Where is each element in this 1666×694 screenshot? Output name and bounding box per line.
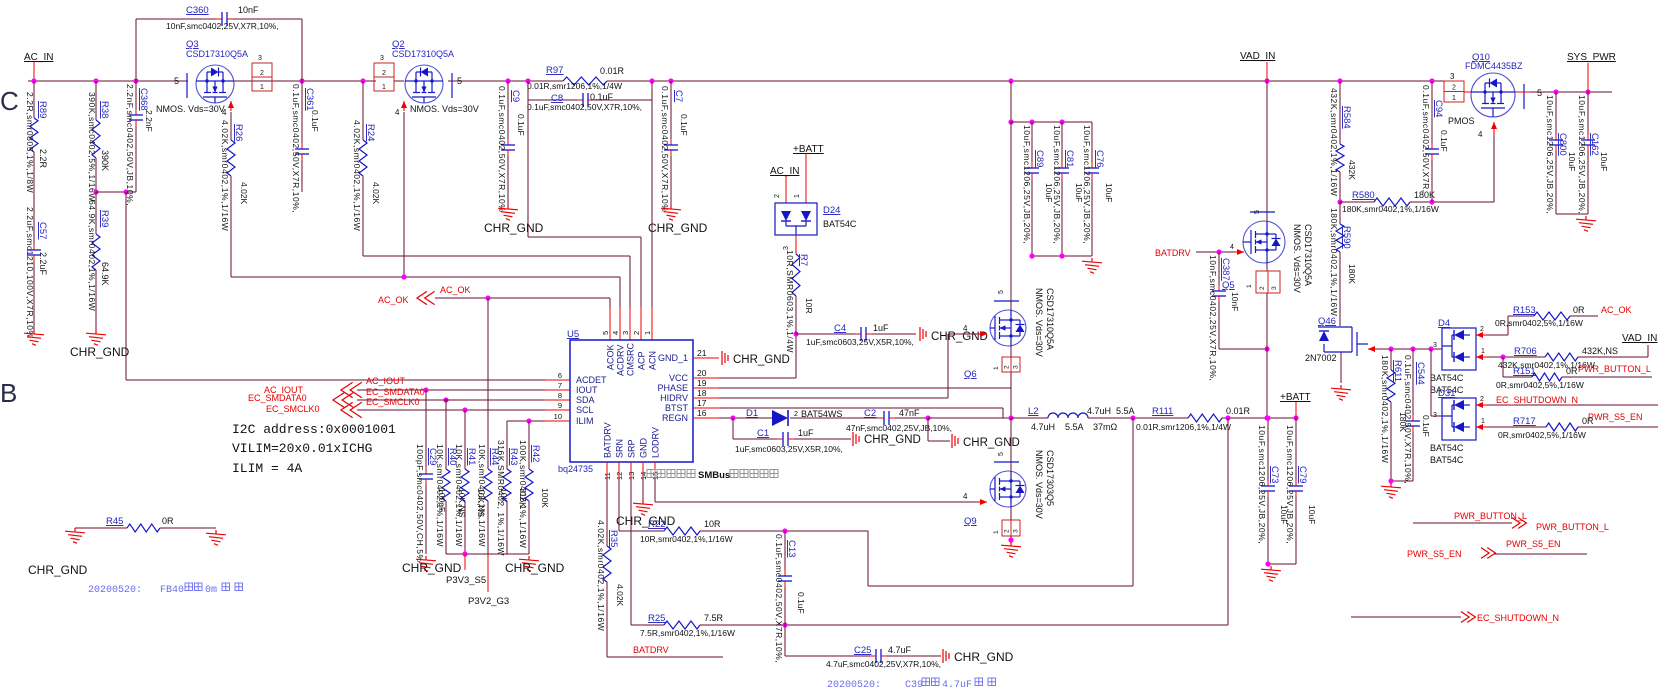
svg-text:C9: C9 xyxy=(510,90,521,102)
ground Q46 source xyxy=(1340,352,1342,383)
capacitor C4 xyxy=(796,333,855,335)
svg-text:21: 21 xyxy=(697,348,707,358)
svg-text:B: B xyxy=(0,378,17,408)
ground under C57 xyxy=(24,330,44,345)
svg-text:10uF: 10uF xyxy=(1599,152,1609,171)
svg-text:CHR_GND: CHR_GND xyxy=(484,221,544,235)
capacitor C800 xyxy=(1555,92,1557,134)
wire AC rail segment 4 xyxy=(448,80,563,82)
svg-text:1uF: 1uF xyxy=(873,323,889,333)
svg-text:2.2nF: 2.2nF xyxy=(144,110,154,132)
svg-text:R39: R39 xyxy=(99,210,110,227)
svg-text:R24: R24 xyxy=(365,124,376,141)
svg-text:SRN: SRN xyxy=(615,439,625,458)
op-amp U5 bq24735 charge controller IC xyxy=(570,340,693,462)
svg-text:SRP: SRP xyxy=(627,439,637,458)
svg-text:9: 9 xyxy=(558,401,562,410)
wire Q46 drain to D4 xyxy=(1368,348,1376,350)
svg-text:1uF: 1uF xyxy=(798,428,814,438)
svg-text:CHR_GND: CHR_GND xyxy=(954,650,1014,664)
svg-text:BAT54C: BAT54C xyxy=(1430,443,1464,453)
svg-text:R35: R35 xyxy=(608,530,619,547)
svg-text:Q6: Q6 xyxy=(964,369,977,380)
svg-text:D4: D4 xyxy=(1438,318,1450,329)
svg-text:GND: GND xyxy=(639,438,649,459)
svg-text:20200520: C39: 20200520: C39 xyxy=(827,680,923,691)
capacitor C387 xyxy=(1218,252,1220,285)
svg-text:390K: 390K xyxy=(100,150,110,171)
svg-text:AC_OK: AC_OK xyxy=(378,295,409,305)
svg-text:C57: C57 xyxy=(37,222,48,239)
svg-text:C544: C544 xyxy=(1415,362,1426,385)
svg-text:NMOS. Vds=30V: NMOS. Vds=30V xyxy=(1034,450,1044,519)
svg-text:P3V3_S5: P3V3_S5 xyxy=(446,575,486,586)
svg-text:10R: 10R xyxy=(804,298,814,314)
svg-text:0R,smr0402,5%,1/16W: 0R,smr0402,5%,1/16W xyxy=(1496,380,1584,390)
resistor R35 xyxy=(606,462,608,478)
pin box Q2 xyxy=(374,63,394,91)
svg-text:3: 3 xyxy=(1013,365,1020,369)
svg-text:ACN: ACN xyxy=(648,351,658,370)
gate pin 4 of Q3 xyxy=(230,101,232,111)
svg-text:7.5R: 7.5R xyxy=(704,613,724,623)
svg-text:10uF: 10uF xyxy=(1104,183,1114,202)
transistor Q46 2N7002 xyxy=(1339,322,1341,326)
svg-text:PWR_S5_EN: PWR_S5_EN xyxy=(1407,549,1462,559)
resistor R89 xyxy=(33,81,35,118)
wire C387 bottom xyxy=(1219,348,1267,350)
svg-text:16: 16 xyxy=(697,408,707,418)
svg-text:1: 1 xyxy=(993,530,1000,534)
svg-text:0.1uF: 0.1uF xyxy=(679,114,689,136)
svg-text:1: 1 xyxy=(1452,95,1456,102)
transistor Q9 xyxy=(990,462,1026,507)
svg-text:BAT54C: BAT54C xyxy=(1430,373,1464,383)
svg-text:BAT54C: BAT54C xyxy=(1430,455,1464,465)
svg-text:R25: R25 xyxy=(648,613,665,624)
svg-text:4.02K,smr0402,1%,1/16W: 4.02K,smr0402,1%,1/16W xyxy=(352,120,362,231)
svg-text:0.1uF: 0.1uF xyxy=(310,110,320,132)
svg-text:2: 2 xyxy=(1004,529,1011,533)
svg-text:17: 17 xyxy=(697,398,707,408)
wire R611 C544 bottom xyxy=(1391,480,1413,482)
svg-text:0.1uF,smc0402,50V,X7R,: 0.1uF,smc0402,50V,X7R, xyxy=(1421,85,1431,193)
svg-text:BTST: BTST xyxy=(665,403,689,413)
resistor R153 xyxy=(1488,334,1508,336)
C2 ground branch xyxy=(927,418,929,441)
capacitor C2 xyxy=(878,417,883,419)
diode D1 BAT54WS xyxy=(772,410,788,426)
ground cap bank xyxy=(1082,258,1102,273)
svg-text:4.02K,smr0402,1%,1/16W: 4.02K,smr0402,1%,1/16W xyxy=(596,520,606,631)
svg-text:2: 2 xyxy=(774,194,781,198)
svg-text:4: 4 xyxy=(963,324,968,333)
svg-text:0.01R: 0.01R xyxy=(600,66,625,76)
svg-text:C13: C13 xyxy=(786,540,797,557)
svg-text:CHR_GND: CHR_GND xyxy=(931,331,988,343)
svg-text:7: 7 xyxy=(558,381,562,390)
svg-text:0.1uF: 0.1uF xyxy=(796,592,806,614)
svg-text:0.1uF,smc0402,50V,X7R,10%: 0.1uF,smc0402,50V,X7R,10% xyxy=(497,86,507,212)
svg-text:432K: 432K xyxy=(1347,160,1357,180)
svg-text:NMOS. Vds=30V: NMOS. Vds=30V xyxy=(410,104,479,114)
svg-text:0.1uF,smc0402,50V,X7R,10%: 0.1uF,smc0402,50V,X7R,10% xyxy=(660,86,670,212)
capacitor C94 xyxy=(1431,81,1433,143)
diode D24 BAT54C xyxy=(775,203,817,235)
svg-text:180K,smr0402,1%,1/16W: 180K,smr0402,1%,1/16W xyxy=(1380,355,1390,463)
resistor R611 xyxy=(1390,349,1392,370)
svg-text:+BATT: +BATT xyxy=(1280,392,1311,403)
svg-text:1uF,smc0603,25V,X5R,10%,: 1uF,smc0603,25V,X5R,10%, xyxy=(735,444,843,454)
capacitor C13 xyxy=(784,531,786,570)
svg-text:1: 1 xyxy=(1481,418,1485,425)
svg-text:EC_SMCLK0: EC_SMCLK0 xyxy=(366,397,420,407)
svg-text:C76: C76 xyxy=(1094,150,1105,167)
svg-text:4: 4 xyxy=(611,331,620,335)
svg-text:Q46: Q46 xyxy=(1318,316,1336,327)
svg-text:180K,smr0402,1%,1/16W: 180K,smr0402,1%,1/16W xyxy=(1329,208,1339,316)
wire cap bank top rail xyxy=(1011,121,1092,123)
svg-text:EC_SMCLK0: EC_SMCLK0 xyxy=(266,404,320,414)
svg-text:EC_SMDATA0: EC_SMDATA0 xyxy=(248,393,307,403)
svg-text:C2: C2 xyxy=(864,408,876,419)
svg-text:R584: R584 xyxy=(1341,106,1352,129)
svg-text:0R: 0R xyxy=(162,516,174,526)
wire Q10 to SYS_PWR xyxy=(1515,91,1530,93)
svg-text:4: 4 xyxy=(222,108,227,117)
wire ACP sense xyxy=(527,100,529,237)
svg-text:PWR_S5_EN: PWR_S5_EN xyxy=(1506,539,1561,549)
svg-text:2.2R,smr0805,1%,1/8W: 2.2R,smr0805,1%,1/8W xyxy=(25,92,35,193)
svg-text:0.01R: 0.01R xyxy=(1226,406,1251,416)
net EC_SHUTDOWN_N port xyxy=(1351,616,1461,618)
svg-text:7.5R,smr0402,1%,1/16W: 7.5R,smr0402,1%,1/16W xyxy=(640,628,735,638)
ground under R39 xyxy=(86,330,106,345)
wire ACDRV run xyxy=(231,276,620,278)
svg-text:LODRV: LODRV xyxy=(651,427,661,458)
svg-text:EC_SHUTDOWN_N: EC_SHUTDOWN_N xyxy=(1477,613,1559,623)
svg-text:64.9K: 64.9K xyxy=(100,262,110,286)
svg-text:10uF,smc1206,25V,JB,20%,: 10uF,smc1206,25V,JB,20%, xyxy=(1082,125,1092,244)
wire ACN sense xyxy=(651,100,653,307)
resistor R26 xyxy=(230,112,232,140)
svg-text:0.1uF: 0.1uF xyxy=(1421,415,1431,437)
svg-text:D24: D24 xyxy=(823,205,840,216)
svg-text:10uF,smc1206,25V,JB,20%,: 10uF,smc1206,25V,JB,20%, xyxy=(1545,95,1555,214)
svg-text:10uF,smc1206,25V,JB,20%,: 10uF,smc1206,25V,JB,20%, xyxy=(1257,425,1267,544)
U5 left pins xyxy=(545,379,570,381)
wire VAD_IN to Q5 drain xyxy=(1266,81,1268,222)
D31 pin1 R717 xyxy=(1476,426,1488,428)
svg-text:0.1uF,smc0402,50V,X7R,10%,: 0.1uF,smc0402,50V,X7R,10%, xyxy=(1403,355,1413,484)
svg-text:10nF: 10nF xyxy=(238,5,259,15)
diode D31 BAT54C xyxy=(1442,398,1476,440)
pin box Q9 xyxy=(1010,507,1012,520)
wire network bottom rail xyxy=(446,553,529,555)
svg-text:4: 4 xyxy=(1230,244,1234,251)
svg-text:0R: 0R xyxy=(1566,366,1578,376)
svg-text:R611: R611 xyxy=(1392,360,1403,382)
ground under C29 xyxy=(416,556,436,571)
svg-text:0.01R,smr1206,1%,1/4W: 0.01R,smr1206,1%,1/4W xyxy=(527,81,622,91)
wire Q2 gate to ACDRV run xyxy=(403,112,405,277)
svg-text:19: 19 xyxy=(697,378,707,388)
capacitor C368 xyxy=(135,81,137,109)
svg-text:CHR_GND: CHR_GND xyxy=(28,563,88,577)
svg-text:NMOS. Vds=30V: NMOS. Vds=30V xyxy=(1292,224,1302,293)
wire AC rail segment 5 xyxy=(607,80,1444,82)
svg-text:C7: C7 xyxy=(673,90,684,102)
wire SRN sense route xyxy=(867,531,869,586)
D4 pin1 xyxy=(1476,356,1488,358)
svg-text:C800: C800 xyxy=(1557,133,1568,156)
resistor R22 xyxy=(618,462,620,478)
svg-text:0.1uF,smc0402,50V,X7R,10%,: 0.1uF,smc0402,50V,X7R,10%, xyxy=(527,102,642,112)
svg-text:1: 1 xyxy=(382,84,386,91)
wire D31 pin3 to C544 node xyxy=(1430,349,1432,416)
svg-text:0R,smr0402,5%,1/16W: 0R,smr0402,5%,1/16W xyxy=(1495,318,1583,328)
svg-text:PMOS: PMOS xyxy=(1448,116,1475,126)
wire phase node to Q9 xyxy=(1010,418,1012,472)
resistor R25 xyxy=(630,462,632,478)
svg-text:2: 2 xyxy=(1452,85,1456,92)
svg-text:4: 4 xyxy=(963,492,968,501)
ground R611 xyxy=(1381,483,1401,498)
svg-text:10uF,smc1206,25V,JB,20%,: 10uF,smc1206,25V,JB,20%, xyxy=(1052,125,1062,244)
capacitor C57 xyxy=(33,244,35,247)
svg-text:CHR_GND: CHR_GND xyxy=(402,561,462,575)
svg-text:R42: R42 xyxy=(530,445,541,462)
svg-text:5: 5 xyxy=(457,76,462,86)
svg-text:5: 5 xyxy=(998,452,1005,456)
svg-text:CHR_GND: CHR_GND xyxy=(70,345,130,359)
svg-text:NMOS. Vds=30V: NMOS. Vds=30V xyxy=(1034,288,1044,357)
resistor R111 xyxy=(1188,414,1222,422)
svg-text:3: 3 xyxy=(1433,342,1437,349)
wire REGN chain xyxy=(719,417,772,419)
wire CMSRC run xyxy=(363,255,630,257)
svg-text:4.7uF: 4.7uF xyxy=(888,645,912,655)
svg-text:4.02K: 4.02K xyxy=(239,182,249,205)
svg-text:CHR_GND: CHR_GND xyxy=(733,354,790,366)
capacitor C9 xyxy=(507,81,509,139)
svg-text:IOUT: IOUT xyxy=(576,385,598,395)
wire AC rail segment 3 xyxy=(394,80,404,82)
svg-text:R97: R97 xyxy=(546,65,563,76)
svg-text:100K,smr0402,1%,1/16W: 100K,smr0402,1%,1/16W xyxy=(518,440,528,548)
svg-text:HIDRV: HIDRV xyxy=(660,393,688,403)
resistor R38 xyxy=(95,81,97,120)
wire R580 to Q10 gate xyxy=(1493,136,1495,202)
svg-text:R22: R22 xyxy=(648,519,665,530)
resistor R45 xyxy=(75,527,127,529)
svg-text:R717: R717 xyxy=(1513,416,1536,427)
resistor R151 xyxy=(1502,357,1504,377)
svg-text:3: 3 xyxy=(621,331,630,335)
svg-text:10nF: 10nF xyxy=(1230,292,1240,311)
resistor R41 xyxy=(464,410,466,469)
svg-text:ILIM = 4A: ILIM = 4A xyxy=(232,461,302,476)
svg-text:C89: C89 xyxy=(1034,150,1045,167)
svg-text:0m: 0m xyxy=(205,585,217,596)
svg-text:4.7uF,smc0402,25V,X7R,10%,: 4.7uF,smc0402,25V,X7R,10%, xyxy=(826,659,941,669)
svg-text:R590: R590 xyxy=(1341,226,1352,249)
capacitor C25 xyxy=(784,625,786,656)
svg-text:R41: R41 xyxy=(466,448,477,465)
svg-text:ACOK: ACOK xyxy=(606,344,616,370)
node VAD_IN right xyxy=(1578,356,1648,358)
svg-text:10: 10 xyxy=(554,412,562,421)
svg-text:4: 4 xyxy=(1478,130,1483,139)
svg-text:2.2uF: 2.2uF xyxy=(38,252,48,276)
svg-text:R43: R43 xyxy=(508,448,519,465)
svg-text:CHR_GND: CHR_GND xyxy=(616,514,676,528)
svg-text:FDMC4435BZ: FDMC4435BZ xyxy=(1465,61,1523,71)
svg-text:1uF,smc0603,25V,X5R,10%,: 1uF,smc0603,25V,X5R,10%, xyxy=(806,337,914,347)
svg-text:10uF,smc1206,25V,JB,20%,: 10uF,smc1206,25V,JB,20%, xyxy=(1577,95,1587,214)
wire BTST run xyxy=(719,407,1003,409)
transistor Q6 xyxy=(990,301,1026,346)
gate pin 4 of Q2 xyxy=(403,101,405,111)
svg-text:R89: R89 xyxy=(37,101,48,118)
svg-text:VAD_IN: VAD_IN xyxy=(1622,333,1657,344)
svg-text:C387: C387 xyxy=(1220,258,1231,281)
wire PHASE run xyxy=(719,387,1011,389)
svg-text:R153: R153 xyxy=(1513,305,1536,316)
svg-text:0.1uF: 0.1uF xyxy=(516,114,526,136)
resistor R42 xyxy=(528,421,530,469)
svg-text:100pF,smc0402,50V,CH,5%: 100pF,smc0402,50V,CH,5% xyxy=(415,444,425,563)
svg-text:SCL: SCL xyxy=(576,405,594,415)
capacitor C89 xyxy=(1031,122,1033,162)
svg-text:2N7002: 2N7002 xyxy=(1305,353,1337,363)
svg-text:AC_IOUT: AC_IOUT xyxy=(366,376,406,386)
capacitor C79 xyxy=(1295,418,1297,480)
svg-text:18: 18 xyxy=(697,388,707,398)
svg-text:180K,smr0402,1%,1/16W: 180K,smr0402,1%,1/16W xyxy=(1342,204,1439,214)
svg-text:1: 1 xyxy=(993,366,1000,370)
svg-text:Q5: Q5 xyxy=(1222,280,1235,291)
capacitor C76 xyxy=(1091,122,1093,162)
svg-text:2: 2 xyxy=(1004,365,1011,369)
svg-text:ILIM: ILIM xyxy=(576,416,594,426)
svg-text:20: 20 xyxy=(697,368,707,378)
svg-text:C4: C4 xyxy=(834,323,846,334)
svg-text:REGN: REGN xyxy=(662,413,688,423)
svg-text:R45: R45 xyxy=(106,516,123,527)
capacitor C29 xyxy=(425,390,427,468)
svg-text:ACDRV: ACDRV xyxy=(616,345,626,376)
svg-text:432K,NS: 432K,NS xyxy=(1582,346,1618,356)
svg-text:0R: 0R xyxy=(1573,305,1585,315)
svg-text:C73: C73 xyxy=(1269,466,1280,483)
svg-text:AC_IN: AC_IN xyxy=(770,166,799,177)
svg-text:0.1uF,smc0402,50V,X7R,10%,: 0.1uF,smc0402,50V,X7R,10%, xyxy=(291,84,301,213)
svg-text:47nF,smc0402,25V,JB,10%,: 47nF,smc0402,25V,JB,10%, xyxy=(846,423,952,433)
svg-text:CSD17310Q5A: CSD17310Q5A xyxy=(186,49,248,59)
svg-text:AC_OK: AC_OK xyxy=(1601,305,1632,315)
wire rail to Q6 drain xyxy=(1010,122,1012,311)
inductor L2 xyxy=(1011,417,1048,419)
svg-text:NMOS. Vds=30V: NMOS. Vds=30V xyxy=(156,104,225,114)
svg-text:4.7uF: 4.7uF xyxy=(942,680,972,691)
svg-text:10uF,smc1206,25V,JB,20%,: 10uF,smc1206,25V,JB,20%, xyxy=(1285,425,1295,544)
svg-text:1: 1 xyxy=(1246,284,1253,288)
svg-text:PWR_BUTTON_L: PWR_BUTTON_L xyxy=(1578,364,1651,374)
wire divider to ACDET xyxy=(96,191,136,193)
svg-text:PHASE: PHASE xyxy=(657,383,688,393)
svg-text:5: 5 xyxy=(1254,210,1261,214)
svg-text:2: 2 xyxy=(632,331,641,335)
pin box Q5 xyxy=(1266,263,1268,271)
svg-text:P3V2_G3: P3V2_G3 xyxy=(468,596,509,607)
wire SRP sense route xyxy=(1227,418,1229,625)
capacitor C162 xyxy=(1587,92,1589,134)
D4 pin2 xyxy=(1476,334,1488,336)
svg-text:AC_IN: AC_IN xyxy=(24,52,53,63)
svg-text:2: 2 xyxy=(794,411,798,418)
svg-text:EC_SMDATA0: EC_SMDATA0 xyxy=(366,387,425,397)
pin box Q6 xyxy=(1010,346,1012,357)
capacitor C544 xyxy=(1412,349,1414,415)
ground SYS_PWR caps xyxy=(1576,216,1596,231)
resistor R40 xyxy=(445,400,447,469)
ground R45 right xyxy=(206,530,226,545)
svg-text:C360: C360 xyxy=(186,5,209,16)
svg-text:4.7uH 5.5A 37mΩ: 4.7uH 5.5A 37mΩ xyxy=(1031,422,1118,432)
U5 chinese description xyxy=(647,470,655,478)
resistor R584 xyxy=(1339,81,1341,144)
node divider junction xyxy=(93,189,98,194)
capacitor C1 xyxy=(732,418,734,439)
wire cap bank bottom rail xyxy=(1032,255,1092,257)
svg-text:C1: C1 xyxy=(757,428,769,439)
svg-text:C94: C94 xyxy=(1433,100,1444,117)
pin box Q3 xyxy=(252,63,272,91)
svg-text:20200520: FB40: 20200520: FB40 xyxy=(88,585,184,596)
transistor Q3 xyxy=(187,65,234,103)
svg-text:0.1uF: 0.1uF xyxy=(590,92,614,102)
svg-text:PWR_S5_EN: PWR_S5_EN xyxy=(1588,412,1643,422)
pin box Q10 xyxy=(1444,81,1464,102)
svg-text:SYS_PWR: SYS_PWR xyxy=(1567,52,1616,63)
svg-text:SMBus: SMBus xyxy=(698,470,730,481)
svg-text:5: 5 xyxy=(998,290,1005,294)
resistor R44 xyxy=(487,298,489,469)
svg-text:1: 1 xyxy=(260,84,264,91)
svg-text:5: 5 xyxy=(174,76,179,86)
LODRV wire to Q9 gate xyxy=(654,478,656,502)
svg-text:ACP: ACP xyxy=(637,351,647,370)
wire Q6 source to phase xyxy=(1010,372,1012,418)
svg-text:10K,smr0402,1%,1/16W: 10K,smr0402,1%,1/16W xyxy=(435,444,445,547)
svg-text:CHR_GND: CHR_GND xyxy=(648,221,708,235)
wire C800 C162 bottom rail xyxy=(1556,213,1588,215)
svg-text:CMSRC: CMSRC xyxy=(626,343,636,376)
wire AC rail segment 2 xyxy=(234,80,376,82)
node P3V2_G3 xyxy=(487,554,489,592)
U5 GND pin ground xyxy=(642,478,644,500)
junction dots on AC rail xyxy=(31,78,36,83)
svg-text:2: 2 xyxy=(382,70,386,77)
resistor R43 xyxy=(506,421,508,469)
svg-text:2.2uF,smc1210,100V,X7R,10%: 2.2uF,smc1210,100V,X7R,10% xyxy=(25,207,35,339)
svg-text:2: 2 xyxy=(1480,326,1484,333)
svg-text:I2C address:0x0001001: I2C address:0x0001001 xyxy=(232,422,396,437)
svg-text:3: 3 xyxy=(1450,72,1455,81)
svg-text:C81: C81 xyxy=(1064,150,1075,167)
ground under C7 xyxy=(661,205,681,220)
